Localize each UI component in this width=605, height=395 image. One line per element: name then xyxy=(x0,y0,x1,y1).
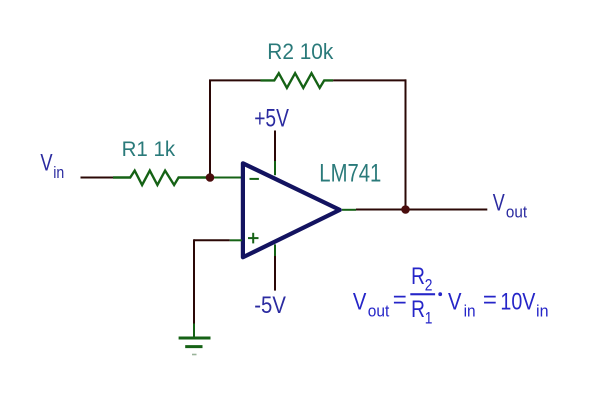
svg-text:V: V xyxy=(448,288,462,315)
wire feedback top right xyxy=(333,79,406,81)
svg-text:2: 2 xyxy=(425,275,433,294)
wire feedback top left xyxy=(209,79,261,81)
svg-text:+5V: +5V xyxy=(254,105,289,133)
svg-text:R2 10k: R2 10k xyxy=(267,39,334,64)
svg-text:out: out xyxy=(506,203,527,222)
wire +5V supply vertical xyxy=(274,131,276,162)
wire noninverting input horizontal xyxy=(194,239,230,241)
junction output node xyxy=(401,205,410,214)
svg-text:V: V xyxy=(493,190,505,217)
ground symbol xyxy=(179,338,211,355)
resistor R1 xyxy=(113,171,210,185)
node Vout label xyxy=(493,190,528,222)
pin noninverting input green xyxy=(230,239,242,241)
svg-text:LM741: LM741 xyxy=(319,159,381,187)
svg-text:1: 1 xyxy=(425,308,433,327)
svg-text:R: R xyxy=(411,296,425,323)
wire output segment xyxy=(356,209,487,211)
wire feedback right vertical xyxy=(405,79,407,209)
svg-text:V: V xyxy=(40,149,52,176)
pin op-amp output green xyxy=(342,209,356,211)
junction inverting input node xyxy=(206,173,215,182)
svg-text:R1 1k: R1 1k xyxy=(122,138,176,161)
wire feedback left vertical xyxy=(209,80,211,174)
svg-text:=: = xyxy=(393,287,407,314)
svg-text:in: in xyxy=(53,163,64,182)
svg-text:-5V: -5V xyxy=(254,292,286,319)
node Vin label xyxy=(40,149,64,182)
svg-text:10V: 10V xyxy=(500,288,535,315)
wire input segment from Vin to R1 xyxy=(81,177,114,179)
op-amp inverting pin minus sign xyxy=(250,178,259,180)
resistor R2 xyxy=(261,73,334,88)
formula Vout = R2/R1 * Vin = 10Vin xyxy=(353,263,549,327)
op-amp U1 triangle xyxy=(243,163,340,257)
pin -5V from op-amp bottom xyxy=(274,244,276,256)
ground lead green xyxy=(193,324,195,339)
op-amp noninverting pin plus sign xyxy=(248,233,259,244)
pin +5V into op-amp top xyxy=(274,161,276,175)
wire noninverting to ground vertical xyxy=(193,239,195,323)
svg-text:in: in xyxy=(536,302,549,321)
wire -5V supply vertical xyxy=(274,256,276,291)
svg-text:R: R xyxy=(411,263,425,290)
svg-text:out: out xyxy=(368,302,390,321)
svg-text:=: = xyxy=(483,287,497,314)
wire inverting input to op-amp xyxy=(214,177,242,179)
svg-text:V: V xyxy=(353,288,367,315)
svg-text:in: in xyxy=(464,302,476,321)
